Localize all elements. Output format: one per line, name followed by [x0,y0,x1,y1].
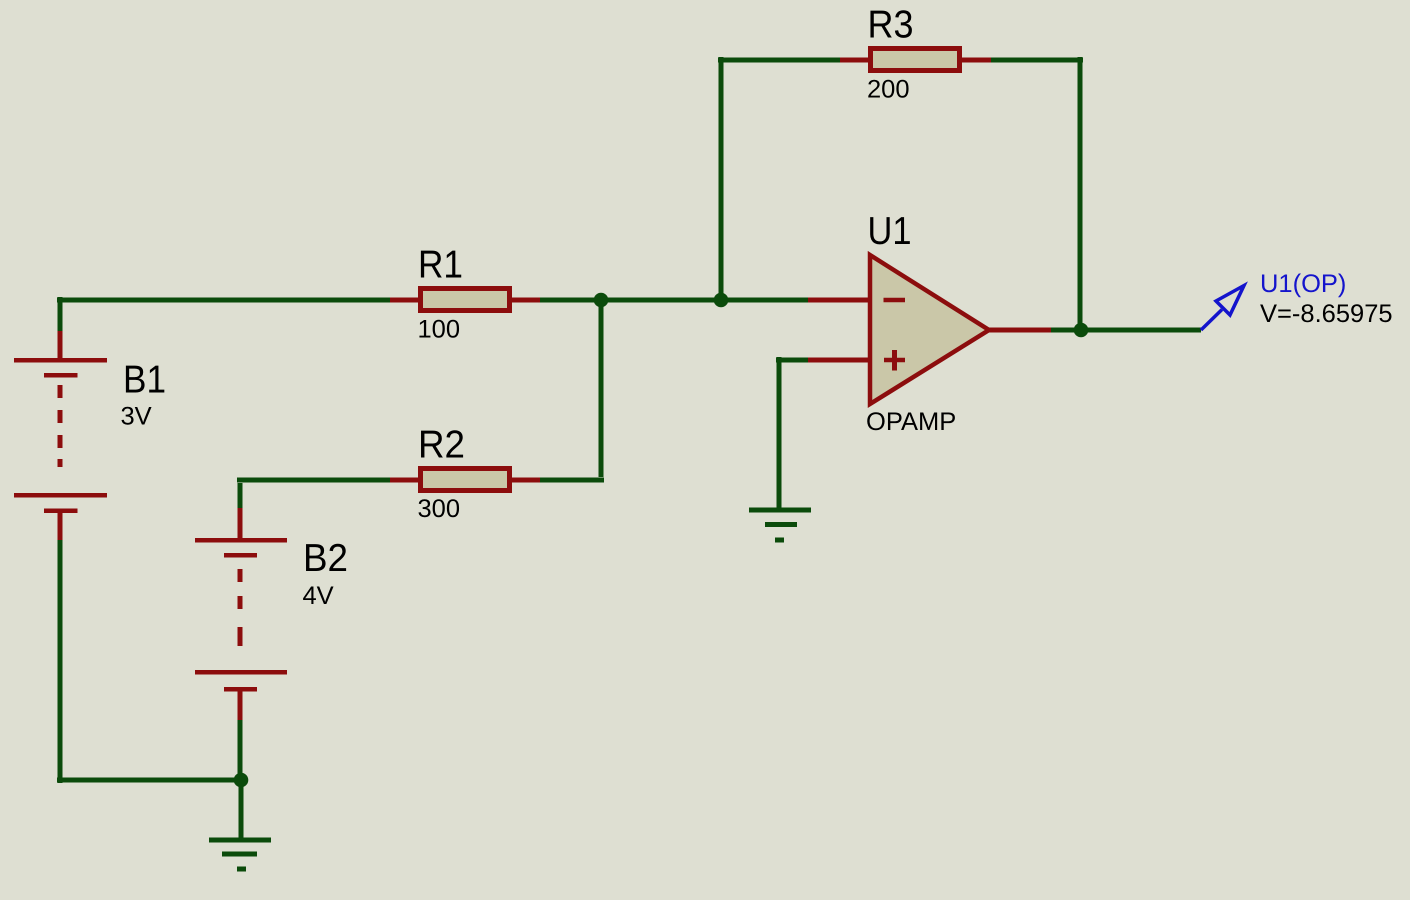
node feedback junction [714,293,729,308]
resistor R1 [421,289,510,311]
wire B2 to R2 (horizontal y=480) [237,478,390,483]
svg-text:B1: B1 [123,358,166,401]
pin R1 right [510,298,540,303]
svg-text:U1(OP): U1(OP) [1260,270,1346,298]
wire B2 bottom stub [238,720,243,780]
svg-text:U1: U1 [868,210,912,253]
wire bottom horizontal to ground node [57,778,241,783]
wire B1 bottom stub [58,540,63,783]
wire op-amp output to probe [1051,328,1201,333]
pin B1 top [58,331,63,360]
voltage probe U1(OP) [1201,286,1244,331]
pin B2 bottom [238,689,243,720]
op-amp U1 [870,255,989,404]
node R1/R2 junction [594,293,609,308]
pin R3 left [840,58,870,63]
pin B2 top [238,508,243,540]
node output junction [1074,323,1089,338]
pin R2 right [510,478,540,483]
wire R1 right toward op-amp minus [540,298,808,303]
svg-text:V=-8.65975: V=-8.65975 [1260,300,1393,328]
wire R2 corner up to node [599,300,604,477]
pin op-amp plus [808,358,872,363]
wire node to ground symbol [239,777,244,838]
wire B1 top stub [58,297,63,331]
pin op-amp output [987,328,1051,333]
svg-text:OPAMP: OPAMP [866,408,956,436]
pin R2 left [390,478,420,483]
battery B2 [195,540,287,689]
wire op-amp plus down to ground [777,357,782,509]
pin R1 left [390,298,420,303]
svg-text:3V: 3V [121,403,152,431]
svg-text:200: 200 [867,76,910,104]
wire op-amp plus horizontal [776,358,808,363]
svg-text:R3: R3 [868,4,914,47]
svg-text:300: 300 [418,495,461,523]
resistor R2 [421,469,510,491]
wire R2 right to corner [540,478,604,483]
pin op-amp minus [808,298,872,303]
svg-text:R1: R1 [418,244,463,287]
wire feedback down to output node [1078,57,1083,330]
wire B1 top to R1 (horizontal y=300) [57,298,390,303]
wire feedback node up [719,57,724,300]
battery B1 [14,360,107,511]
node ground junction [234,773,249,788]
wire feedback top left (to R3) [718,58,840,63]
resistor R3 [871,49,960,71]
pin B1 bottom [58,510,63,540]
svg-text:R2: R2 [418,424,465,467]
svg-text:B2: B2 [303,537,348,580]
ground (battery return) [209,840,271,869]
pin R3 right [960,58,991,63]
svg-text:100: 100 [418,316,461,344]
svg-text:4V: 4V [303,582,334,610]
ground (op-amp plus input) [749,510,811,540]
wire B2 top stub [238,483,243,508]
wire feedback top right (from R3) [991,58,1083,63]
